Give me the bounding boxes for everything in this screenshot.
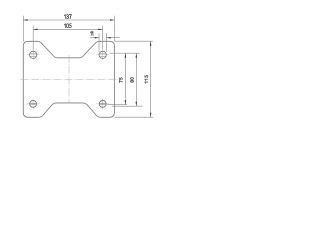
extension line 80 bottom xyxy=(112,105,143,107)
dim 115 line xyxy=(150,41,152,117)
dim 11 lines xyxy=(90,37,120,39)
centerline vertical xyxy=(68,55,70,102)
dim 137 text xyxy=(64,15,71,19)
extension line 115 bottom xyxy=(115,116,154,118)
extension line 137 left xyxy=(22,16,24,42)
extension line 105 left xyxy=(32,26,34,50)
dim 11 arrows xyxy=(95,37,111,39)
extension line 11 left xyxy=(98,33,100,51)
hole top-right xyxy=(99,51,106,58)
dim 137 arrows xyxy=(23,19,114,21)
dim 80 text xyxy=(130,78,133,83)
centerline horizontal xyxy=(21,79,119,81)
hole bottom-right xyxy=(99,100,106,107)
hole bottom-left crosshair xyxy=(27,99,40,110)
dim 75 text xyxy=(119,78,122,83)
dim 75 line xyxy=(124,53,126,104)
dim 11 text xyxy=(91,31,93,35)
hole top-left xyxy=(30,51,37,58)
extension line 137/11 right xyxy=(113,16,115,42)
dim 80 arrows xyxy=(136,53,138,106)
dim 115 text xyxy=(145,76,148,84)
dim 80 line xyxy=(135,53,137,106)
dim 105 arrows xyxy=(33,29,103,31)
hole bottom-left xyxy=(30,100,37,107)
dim 75 arrows xyxy=(125,53,127,104)
dim 137 line xyxy=(23,19,114,21)
dim 105 text xyxy=(64,24,71,28)
hole top-right crosshair xyxy=(96,49,109,60)
extension line 75 bottom xyxy=(107,104,127,106)
extension line 105 right xyxy=(102,26,104,50)
dim 105 line xyxy=(33,28,103,30)
extension line 115 top xyxy=(115,40,153,42)
dim 115 arrows xyxy=(150,41,152,117)
extension line 75/80 top xyxy=(110,52,140,54)
plate outline xyxy=(23,41,114,117)
hole bottom-right crosshair xyxy=(96,99,109,110)
hole top-left crosshair xyxy=(27,49,40,60)
extension line 11 right xyxy=(105,33,107,51)
